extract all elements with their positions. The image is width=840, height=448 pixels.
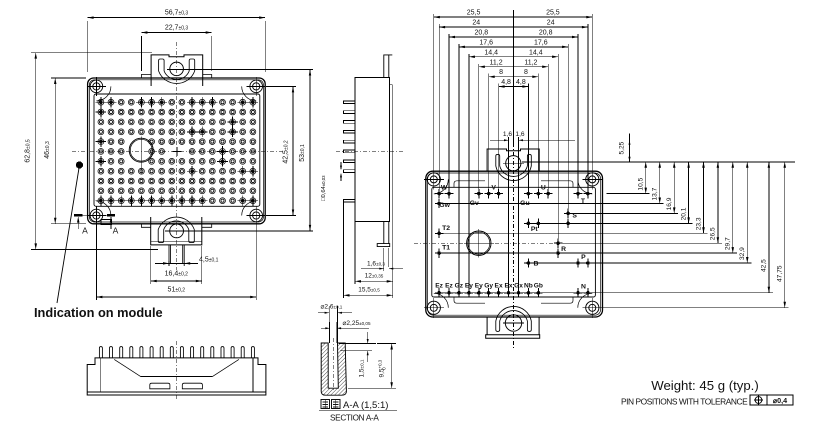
section dim 9.5 xyxy=(348,344,396,389)
svg-text:B: B xyxy=(533,261,538,268)
top view corner screws xyxy=(424,169,444,189)
side view pins xyxy=(344,101,356,202)
top view body xyxy=(426,171,603,317)
svg-text:17,6: 17,6 xyxy=(479,39,493,46)
svg-text:24: 24 xyxy=(472,20,480,27)
dim 42.5 xyxy=(266,85,296,87)
dim 1.6 1.6 xyxy=(490,131,575,289)
svg-text:Nb: Nb xyxy=(524,283,533,290)
svg-text:Ez: Ez xyxy=(435,283,443,290)
side view top tab xyxy=(384,55,393,77)
dim 20,8 xyxy=(449,30,578,190)
front view top mounting tab xyxy=(141,55,211,86)
front view corner bosses xyxy=(96,86,111,101)
front view pin-field border xyxy=(94,94,260,206)
svg-text:Weight: 45 g (typ.): Weight: 45 g (typ.) xyxy=(651,378,759,393)
svg-text:Pt: Pt xyxy=(531,226,539,233)
side view body xyxy=(355,77,393,221)
section label xyxy=(319,400,397,423)
dim 16,9 xyxy=(572,162,678,214)
svg-text:20,1: 20,1 xyxy=(680,207,687,220)
section dim 2.25 xyxy=(321,320,371,343)
side view centerline xyxy=(336,151,404,153)
svg-text:8: 8 xyxy=(499,69,503,76)
front view center mark xyxy=(173,150,182,152)
svg-text:4,8: 4,8 xyxy=(516,79,526,86)
svg-text:Ex: Ex xyxy=(495,283,503,290)
svg-text:T2: T2 xyxy=(442,225,450,232)
top view pins xyxy=(435,189,592,298)
svg-text:16,4±0,2: 16,4±0,2 xyxy=(165,271,189,278)
section dim 1.5 xyxy=(339,332,376,378)
dim 14,4 xyxy=(469,49,558,288)
svg-text:62,8±0,5: 62,8±0,5 xyxy=(25,139,32,163)
svg-text:24: 24 xyxy=(547,20,555,27)
front view big hole xyxy=(129,138,153,162)
dim 26,5 xyxy=(562,162,722,243)
svg-text:46±0,3: 46±0,3 xyxy=(44,141,51,159)
dim 56.7 xyxy=(87,21,89,72)
dim 22.7 xyxy=(140,36,142,71)
front view module body xyxy=(88,78,266,224)
dim 10,5 xyxy=(607,162,650,194)
bottom view pins xyxy=(99,347,254,358)
dim 42,5 xyxy=(443,162,773,293)
svg-text:53±0,1: 53±0,1 xyxy=(299,144,306,162)
top view corner bosses xyxy=(434,179,449,194)
svg-text:A-A (1,5:1): A-A (1,5:1) xyxy=(343,400,388,411)
datum line xyxy=(522,161,795,163)
section dim 2.6 xyxy=(318,303,352,343)
svg-text:47,75: 47,75 xyxy=(777,265,784,282)
dim 23,3 xyxy=(443,162,707,234)
front view corner screw holes xyxy=(87,77,106,96)
top view shoulder lines xyxy=(454,181,573,188)
dim 46 xyxy=(51,77,86,79)
svg-text:Ez: Ez xyxy=(445,283,453,290)
dim 17,6 xyxy=(459,39,568,288)
top view top tab xyxy=(487,149,539,181)
svg-text:26,5: 26,5 xyxy=(710,227,717,240)
dim 32,9 xyxy=(532,162,751,263)
top view pin labels xyxy=(435,184,586,290)
svg-text:16,9: 16,9 xyxy=(666,197,673,210)
dim 20,1 xyxy=(532,162,692,224)
svg-text:20,8: 20,8 xyxy=(539,30,553,37)
side view dims 1.6 12 15.5 xyxy=(344,202,404,298)
dim 53 xyxy=(184,69,314,71)
dim 5.25 xyxy=(619,134,631,162)
svg-text:25,5: 25,5 xyxy=(467,10,481,17)
svg-text:⌀0,4: ⌀0,4 xyxy=(773,396,787,405)
svg-text:15,5±0,5: 15,5±0,5 xyxy=(358,287,380,294)
svg-text:17,6: 17,6 xyxy=(534,39,548,46)
dim 24 xyxy=(439,20,588,190)
svg-text:11,2: 11,2 xyxy=(490,59,503,66)
svg-text:⌀2,6±0,1: ⌀2,6±0,1 xyxy=(321,303,343,310)
svg-text:SECTION A-A: SECTION A-A xyxy=(330,414,379,423)
svg-text:14,4: 14,4 xyxy=(484,49,498,56)
front view pin grid xyxy=(96,97,259,206)
side view bottom tab xyxy=(377,222,390,247)
svg-text:1,6: 1,6 xyxy=(515,131,524,138)
svg-text:32,9: 32,9 xyxy=(739,247,746,260)
svg-text:A: A xyxy=(82,226,88,236)
dim 62.8 xyxy=(31,52,152,54)
dim 47,75 xyxy=(596,162,788,308)
dim 13,7 xyxy=(443,162,664,204)
svg-text:R: R xyxy=(561,246,566,253)
svg-text:23,3: 23,3 xyxy=(695,217,702,230)
svg-text:1,6: 1,6 xyxy=(503,131,512,138)
svg-text:A: A xyxy=(113,226,119,236)
indication on module xyxy=(34,161,163,320)
svg-text:25,5: 25,5 xyxy=(546,10,560,17)
svg-text:U: U xyxy=(541,184,546,191)
bottom view body xyxy=(87,358,266,395)
svg-text:11,2: 11,2 xyxy=(524,59,537,66)
svg-text:1,6±0,3: 1,6±0,3 xyxy=(367,261,385,268)
svg-text:PIN POSITIONS WITH TOLERANCE: PIN POSITIONS WITH TOLERANCE xyxy=(621,396,748,406)
top view pin field border xyxy=(432,187,596,297)
svg-text:P: P xyxy=(581,254,586,261)
svg-text:Ey: Ey xyxy=(475,283,483,290)
front view keying feature xyxy=(101,220,111,225)
svg-text:⌀2,25±0,05: ⌀2,25±0,05 xyxy=(343,320,371,327)
svg-text:4,8: 4,8 xyxy=(501,79,511,86)
svg-text:42,5±0,2: 42,5±0,2 xyxy=(282,140,289,164)
top view centerlines xyxy=(513,143,515,348)
top view bottom tab xyxy=(486,306,540,338)
svg-text:10,5: 10,5 xyxy=(638,177,645,190)
dim 25,5 xyxy=(434,10,593,176)
svg-text:42,5: 42,5 xyxy=(761,259,768,272)
bottom view centerline xyxy=(176,341,178,400)
section A-A centerline xyxy=(332,338,334,392)
svg-text:Gy: Gy xyxy=(484,283,493,290)
svg-text:56,7±0,3: 56,7±0,3 xyxy=(165,10,189,17)
svg-text:N: N xyxy=(581,283,586,290)
top view big hole xyxy=(467,231,491,255)
svg-text:V: V xyxy=(491,184,496,191)
dim 16.4 xyxy=(150,246,152,284)
front view centerlines xyxy=(176,42,178,270)
dim 8 xyxy=(489,69,539,189)
bottom view tab bosses xyxy=(150,383,170,389)
svg-text:Indication on module: Indication on module xyxy=(34,305,163,320)
svg-text:Gb: Gb xyxy=(534,283,543,290)
svg-text:13,7: 13,7 xyxy=(652,187,659,200)
svg-text:Gw: Gw xyxy=(439,202,450,209)
svg-text:29,7: 29,7 xyxy=(725,237,732,250)
svg-text:5,25: 5,25 xyxy=(619,141,626,154)
dim 29,7 xyxy=(443,162,737,253)
dim 11,2 xyxy=(479,59,548,189)
section A-A cut marks xyxy=(74,215,119,235)
svg-text:W: W xyxy=(441,184,448,191)
dim 4.5 xyxy=(168,261,170,266)
svg-text:T1: T1 xyxy=(442,245,450,252)
svg-text:22,7±0,3: 22,7±0,3 xyxy=(165,25,189,32)
svg-text:14,4: 14,4 xyxy=(529,49,543,56)
dim 0.64 square pin xyxy=(321,162,342,201)
dim 51 xyxy=(95,222,97,300)
svg-text:20,8: 20,8 xyxy=(474,30,488,37)
tolerance frame xyxy=(750,395,793,405)
svg-text:1,5±0,1: 1,5±0,1 xyxy=(359,359,366,377)
section A-A cup xyxy=(321,343,346,395)
center extension xyxy=(513,10,515,145)
dim 4,8 xyxy=(499,79,529,190)
svg-text:8: 8 xyxy=(524,69,528,76)
front view bottom mounting tab xyxy=(141,217,211,266)
svg-text:12±0,35: 12±0,35 xyxy=(365,273,384,280)
svg-text:51±0,2: 51±0,2 xyxy=(168,287,186,294)
